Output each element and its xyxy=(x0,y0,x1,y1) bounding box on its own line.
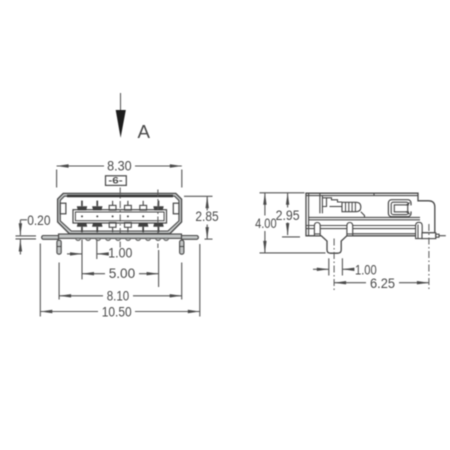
mounting leg left xyxy=(42,236,59,240)
svg-text:4.00: 4.00 xyxy=(255,215,277,231)
centerline vertical (connector axis) xyxy=(119,188,121,248)
leg pin right xyxy=(180,240,184,254)
foot pin tail xyxy=(439,235,446,237)
pin bullet 2 xyxy=(347,223,353,236)
svg-text:-6-: -6- xyxy=(108,176,122,186)
latch notch right xyxy=(173,203,179,214)
foot tab xyxy=(436,234,439,237)
solder tail bumps xyxy=(76,238,169,240)
long rails lower (tube) xyxy=(306,225,416,227)
dimension 2.85 xyxy=(184,196,213,239)
latch window inner wall xyxy=(391,202,408,214)
datum box -6- xyxy=(106,176,127,186)
dimension 2.95 xyxy=(282,193,300,237)
dimension 8.10 xyxy=(59,263,182,300)
dimension 0.20 xyxy=(16,220,37,255)
solder bracket strip xyxy=(59,234,182,238)
latch window outer xyxy=(388,200,411,217)
pin bullet 3 (right) xyxy=(416,222,423,238)
leg centerline xyxy=(333,239,335,291)
foot plate xyxy=(422,233,436,239)
contact center dots xyxy=(81,215,144,217)
dimension 5.00 xyxy=(82,250,159,287)
latch lip top xyxy=(406,203,410,206)
latch notch left xyxy=(60,203,66,214)
arm lower diagonal xyxy=(361,212,365,218)
shell top seam xyxy=(67,195,173,197)
svg-text:2.95: 2.95 xyxy=(276,207,300,223)
dimension 6.25 xyxy=(334,282,429,284)
contact tongue bar xyxy=(73,210,167,223)
shell inner cavity xyxy=(60,196,179,231)
dimension 8.30 xyxy=(57,166,182,188)
view direction arrow (section A) xyxy=(116,93,126,138)
svg-text:8.10: 8.10 xyxy=(107,287,130,303)
centerline contact 6 xyxy=(157,190,159,249)
side body outline xyxy=(306,193,435,253)
inner left wall xyxy=(308,193,310,236)
svg-text:8.30: 8.30 xyxy=(107,158,132,174)
inner vertical fold xyxy=(319,193,321,213)
svg-text:0.20: 0.20 xyxy=(27,212,50,228)
dimension 1.00 (side) xyxy=(313,258,354,275)
serrated spring block xyxy=(342,202,361,211)
foot centerline xyxy=(428,224,430,290)
shell outer body xyxy=(58,193,182,233)
latch mouth xyxy=(408,205,412,211)
top seam double line xyxy=(306,195,418,197)
latch cavity xyxy=(394,205,407,212)
svg-text:6.25: 6.25 xyxy=(370,275,395,291)
contacts bottom row xyxy=(77,223,164,233)
leg pin left xyxy=(57,240,61,254)
svg-text:5.00: 5.00 xyxy=(109,265,136,281)
mounting leg right xyxy=(182,236,199,240)
pin bullet 1 xyxy=(314,223,320,236)
svg-text:1.00: 1.00 xyxy=(108,245,132,261)
dimension 4.00 xyxy=(260,193,326,253)
dimension 10.50 xyxy=(40,244,200,317)
svg-text:2.85: 2.85 xyxy=(195,208,218,224)
folded contact arm xyxy=(322,198,342,202)
contacts top row xyxy=(77,201,164,211)
long rails upper xyxy=(309,216,420,218)
svg-text:10.50: 10.50 xyxy=(102,303,132,319)
dimension 1.00 (front) xyxy=(67,240,107,280)
svg-text:A: A xyxy=(138,121,151,142)
latch lip bottom xyxy=(406,212,410,215)
